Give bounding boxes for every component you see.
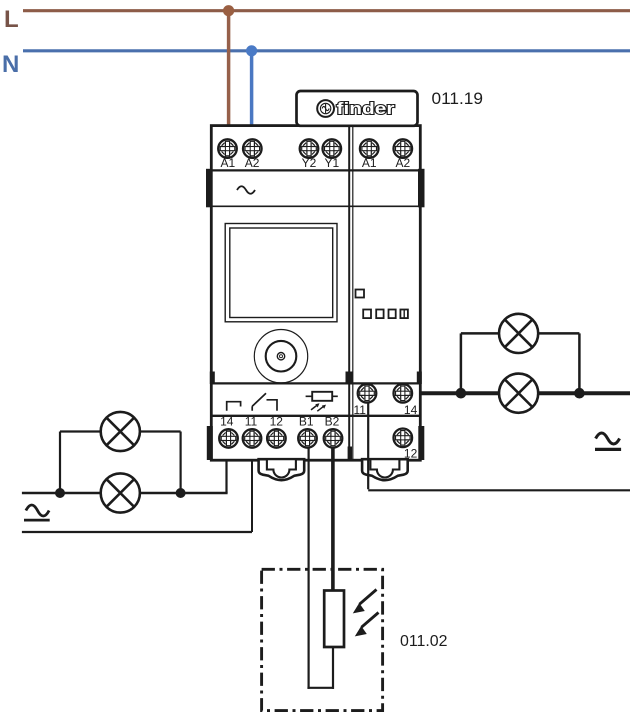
svg-text:011.02: 011.02 [400, 633, 448, 650]
svg-text:L: L [4, 6, 19, 33]
svg-text:12: 12 [404, 447, 418, 461]
svg-text:14: 14 [220, 415, 234, 429]
svg-text:A2: A2 [245, 156, 260, 170]
svg-text:N: N [2, 51, 19, 78]
svg-text:11: 11 [353, 403, 366, 417]
svg-text:B2: B2 [325, 415, 340, 429]
svg-text:11: 11 [245, 415, 258, 429]
svg-text:finder: finder [337, 100, 396, 118]
svg-text:A1: A1 [220, 156, 235, 170]
svg-text:12: 12 [270, 415, 284, 429]
svg-text:14: 14 [404, 403, 418, 417]
svg-text:A2: A2 [395, 156, 410, 170]
svg-text:A1: A1 [362, 156, 377, 170]
svg-text:Y2: Y2 [302, 156, 317, 170]
svg-text:Y1: Y1 [324, 156, 339, 170]
svg-text:B1: B1 [299, 415, 314, 429]
svg-text:011.19: 011.19 [432, 89, 484, 108]
